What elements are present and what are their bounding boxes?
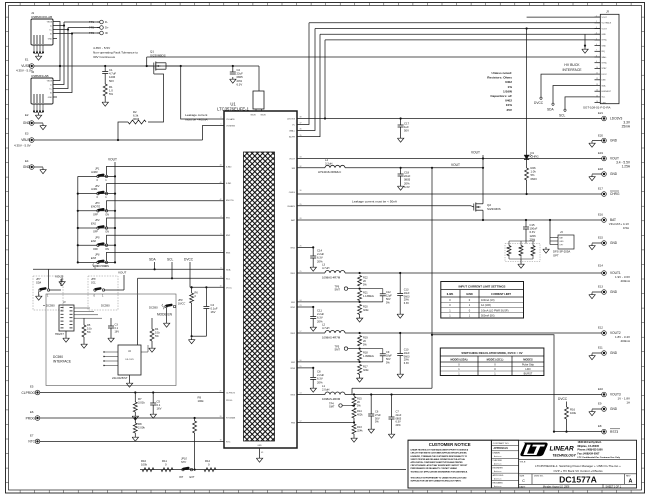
svg-text:0603: 0603 — [404, 294, 410, 298]
svg-text:10: 10 — [596, 67, 598, 69]
svg-text:16V: 16V — [157, 407, 162, 411]
svg-text:5.1k: 5.1k — [87, 326, 93, 330]
svg-text:C9: C9 — [386, 350, 390, 354]
node SCL below J5 — [565, 97, 595, 109]
svg-text:E17: E17 — [598, 187, 603, 191]
svg-text:0603: 0603 — [133, 117, 140, 121]
svg-text:24LC025/ST: 24LC025/ST — [112, 376, 128, 380]
svg-text:GND: GND — [48, 38, 53, 40]
svg-text:4.7uH: 4.7uH — [322, 326, 329, 330]
svg-text:C6: C6 — [375, 410, 379, 414]
ground at J4 — [545, 247, 547, 249]
svg-text:1.13MEG: 1.13MEG — [363, 294, 374, 298]
svg-text:15: 15 — [596, 95, 598, 97]
capacitor C14 — [312, 247, 314, 256]
svg-text:E9: E9 — [598, 402, 602, 406]
resistor R11 — [161, 468, 173, 472]
svg-text:0.5mA (LO PWR SUSP): 0.5mA (LO PWR SUSP) — [481, 308, 509, 312]
ground below R8 — [134, 433, 136, 435]
svg-text:PROG: PROG — [226, 400, 233, 402]
svg-text:NTC: NTC — [28, 440, 35, 444]
svg-text:100k: 100k — [570, 411, 577, 415]
resistor R7 — [134, 393, 136, 403]
svg-text:WALL: WALL — [289, 130, 296, 133]
svg-text:5%: 5% — [507, 255, 510, 257]
svg-text:CNTL: CNTL — [602, 102, 607, 104]
svg-text:SYNC: SYNC — [602, 63, 608, 65]
svg-text:Capacitors: uF: Capacitors: uF — [490, 94, 512, 98]
svg-text:JP5: JP5 — [95, 235, 100, 239]
svg-text:Fax: (408)434-0507: Fax: (408)434-0507 — [578, 452, 600, 455]
svg-text:OPT: OPT — [553, 253, 559, 257]
ground at E11 — [592, 352, 602, 354]
svg-text:E6: E6 — [30, 410, 34, 414]
wire NTC bottom rail — [140, 469, 406, 471]
svg-text:324k: 324k — [357, 428, 363, 432]
svg-text:DVCC: DVCC — [184, 258, 194, 262]
svg-text:C10: C10 — [404, 348, 409, 352]
wire Q2 to BAT rail — [482, 214, 484, 220]
resistor R8 — [134, 418, 136, 423]
svg-text:THIS CIRCUIT IS PROPRIETARY TO: THIS CIRCUIT IS PROPRIETARY TO LINEAR TE… — [411, 477, 468, 480]
resistor R14 — [352, 408, 356, 418]
svg-text:JP3: JP3 — [95, 201, 100, 205]
svg-text:RST3: RST3 — [610, 430, 618, 434]
wire riser to LDO3V3 rail — [324, 40, 326, 119]
svg-text:0.5A: 0.5A — [623, 226, 629, 230]
svg-text:DVCC: DVCC — [602, 74, 608, 76]
svg-text:GND: GND — [257, 445, 262, 447]
svg-text:VC/TRACK: VC/TRACK — [602, 22, 612, 25]
table input current limit settings — [441, 282, 524, 319]
svg-text:R17: R17 — [363, 364, 368, 368]
svg-text:JP6: JP6 — [95, 253, 100, 257]
ground below R4 — [151, 341, 153, 346]
svg-text:LINEAR: LINEAR — [550, 446, 575, 453]
svg-text:ACPR: ACPR — [289, 136, 295, 139]
svg-text:0402: 0402 — [505, 80, 512, 84]
logo cell — [519, 459, 637, 461]
ground below C5 — [152, 412, 154, 414]
connector J1 USBMICRO-AB — [31, 19, 53, 45]
svg-text:SHEET 1 OF 1: SHEET 1 OF 1 — [606, 486, 622, 488]
capacitor C7 — [391, 395, 393, 418]
svg-text:JP9: JP9 — [178, 298, 183, 302]
svg-text:R13: R13 — [357, 425, 362, 429]
svg-text:MODE1 (SCL): MODE1 (SCL) — [487, 358, 504, 362]
svg-text:DWG NO.: DWG NO. — [534, 476, 544, 478]
svg-text:0603: 0603 — [531, 177, 538, 181]
svg-text:CHRG: CHRG — [610, 192, 620, 196]
svg-text:VBUS: VBUS — [47, 80, 53, 82]
capacitor C4 — [205, 286, 207, 288]
svg-text:100mA (1X): 100mA (1X) — [481, 298, 495, 302]
svg-text:APPROVED: APPROVED — [493, 474, 504, 477]
svg-text:50V: 50V — [109, 79, 114, 83]
wire ID riser — [57, 34, 72, 93]
ground below C8 — [312, 386, 314, 388]
svg-text:0805: 0805 — [396, 416, 402, 420]
wire VOUT to J5 pin 3 — [315, 28, 600, 30]
svg-text:10uF: 10uF — [404, 291, 410, 295]
svg-text:E13: E13 — [598, 285, 603, 289]
svg-text:1.09MEG: 1.09MEG — [363, 354, 374, 358]
wire VIN1 row with C14 — [297, 246, 313, 248]
svg-text:R19: R19 — [363, 336, 368, 340]
svg-text:22uF: 22uF — [396, 413, 402, 417]
ground below C7 — [391, 432, 393, 434]
svg-text:24LC025: 24LC025 — [125, 359, 134, 361]
ground at E4 — [34, 166, 43, 168]
ground below C14 — [312, 265, 314, 267]
svg-text:EN1: EN1 — [91, 222, 97, 226]
wire D+ riser — [57, 30, 68, 89]
svg-text:TP6: TP6 — [335, 284, 340, 288]
svg-text:GND: GND — [610, 351, 618, 355]
svg-text:4.35V - 5.0V: 4.35V - 5.0V — [16, 69, 33, 73]
svg-text:16V: 16V — [115, 329, 120, 333]
svg-text:IRQ: IRQ — [602, 51, 606, 53]
svg-text:6.3V: 6.3V — [396, 420, 402, 424]
ground below C10 — [399, 372, 401, 374]
capacitor C6 — [370, 395, 372, 415]
svg-text:GND: GND — [610, 172, 618, 176]
svg-text:A: A — [629, 478, 633, 484]
svg-text:DC590: DC590 — [149, 306, 158, 310]
svg-text:DVCC: DVCC — [178, 301, 185, 305]
svg-text:324k: 324k — [363, 368, 369, 372]
svg-text:3.01k: 3.01k — [138, 401, 145, 405]
IC U2 24LC025 EEPROM — [118, 345, 141, 375]
svg-text:CHRG: CHRG — [289, 192, 296, 194]
wire output rail to E14 — [345, 272, 602, 274]
svg-text:OFF: OFF — [93, 247, 99, 251]
svg-text:1.25A: 1.25A — [622, 165, 631, 169]
svg-text:20%: 20% — [396, 423, 402, 427]
wire SW3 row — [297, 394, 325, 396]
svg-text:400mA: 400mA — [620, 339, 630, 343]
svg-text:3: 3 — [596, 27, 597, 29]
svg-text:REV: REV — [626, 476, 631, 478]
svg-text:50V: 50V — [404, 129, 409, 133]
svg-text:27uF: 27uF — [375, 413, 381, 417]
svg-text:VOUT: VOUT — [289, 159, 296, 161]
ground below R7 — [134, 412, 136, 414]
svg-text:6.3V: 6.3V — [237, 82, 243, 86]
svg-text:E7: E7 — [30, 434, 34, 438]
svg-text:SI2333DS: SI2333DS — [487, 207, 501, 211]
svg-text:TITLE:: TITLE: — [520, 461, 527, 463]
svg-text:4.35V - 5.0V: 4.35V - 5.0V — [14, 144, 31, 148]
svg-text:400mA: 400mA — [620, 279, 630, 283]
svg-text:SUPPLIED FOR USE WITH LINEAR T: SUPPLIED FOR USE WITH LINEAR TECHNOLOGY … — [411, 480, 462, 483]
svg-text:13: 13 — [596, 84, 598, 86]
svg-text:D+: D+ — [105, 26, 109, 30]
connector J2 USBMINI-AB — [31, 78, 53, 104]
svg-text:1%: 1% — [508, 85, 513, 89]
wires HD2X7 to right — [74, 307, 90, 309]
resistor R9 — [194, 418, 196, 421]
svg-text:5.1k: 5.1k — [155, 330, 161, 334]
customer notice box — [408, 440, 491, 488]
wire U2 right pin — [141, 351, 148, 353]
svg-text:ON: ON — [105, 230, 109, 234]
svg-text:2.0uH: 2.0uH — [322, 388, 329, 392]
capacitor C11 on VIN2 — [297, 306, 313, 308]
svg-text:JP2: JP2 — [95, 184, 100, 188]
ground below R13 — [353, 434, 355, 436]
U1 bottom ground pin and ground — [259, 448, 261, 456]
svg-text:LDO3V3: LDO3V3 — [610, 117, 623, 121]
svg-text:0603: 0603 — [404, 354, 410, 358]
svg-text:SIZE: SIZE — [520, 476, 525, 478]
svg-text:VIN1: VIN1 — [290, 248, 296, 250]
svg-text:LINEAR TECHNOLOGY HAS MADE A B: LINEAR TECHNOLOGY HAS MADE A BEST EFFORT… — [411, 449, 469, 452]
svg-text:R22: R22 — [363, 276, 368, 280]
svg-text:GND: GND — [610, 407, 618, 411]
svg-text:R14: R14 — [357, 409, 362, 413]
svg-text:TP5: TP5 — [335, 344, 340, 348]
svg-text:OVGATE: OVGATE — [226, 118, 235, 121]
svg-text:NTCBIAS: NTCBIAS — [226, 417, 236, 420]
wire BAT rail to E16 — [297, 219, 602, 221]
resistor R20 — [358, 304, 362, 314]
svg-text:ILIM1: ILIM1 — [447, 292, 454, 296]
svg-text:50V: 50V — [386, 357, 391, 361]
ground below C3 — [110, 336, 112, 338]
ground below HD2X7 — [65, 331, 67, 336]
svg-text:E2: E2 — [25, 113, 29, 117]
svg-text:NTC: NTC — [181, 460, 186, 464]
svg-text:DC1577A: DC1577A — [559, 474, 597, 484]
svg-text:X: X — [494, 362, 496, 366]
table switching regulator mode — [440, 348, 544, 376]
wire WALL to J5 pin 8 — [147, 56, 601, 58]
svg-text:E21: E21 — [598, 111, 603, 115]
connector J5 HV buck interface — [600, 14, 619, 103]
svg-text:Leakage current: Leakage current — [185, 113, 207, 117]
svg-text:C13: C13 — [404, 288, 409, 292]
wire sense stub left — [352, 387, 432, 389]
svg-text:ILIM1: ILIM1 — [226, 183, 232, 185]
svg-text:SWITCHING REGULATOR MODE, DVCC: SWITCHING REGULATOR MODE, DVCC = 0V — [461, 351, 522, 355]
svg-text:MODE EN: MODE EN — [157, 313, 173, 317]
connector HD2X7 header — [59, 305, 74, 331]
wire Q1 gate — [153, 66, 155, 74]
wire J1/J2 VBUS riser — [57, 22, 60, 81]
capacitor C3 — [110, 318, 112, 326]
Linear Technology logo — [520, 443, 547, 457]
svg-text:1630 McCarthy Blvd.: 1630 McCarthy Blvd. — [578, 441, 602, 444]
svg-text:1A: 1A — [626, 401, 630, 405]
wire riser ACPR — [297, 34, 320, 136]
svg-text:E1: E1 — [25, 58, 29, 62]
resistor R1 — [104, 74, 106, 85]
svg-text:VOUT: VOUT — [602, 17, 608, 19]
svg-text:CURRENT LIMIT: CURRENT LIMIT — [491, 292, 511, 296]
svg-text:1A (10X): 1A (10X) — [481, 303, 491, 307]
wire GND to J5 pin 4 — [320, 33, 600, 35]
svg-text:APPROVALS: APPROVALS — [494, 447, 509, 450]
svg-text:SDA: SDA — [149, 258, 156, 262]
svg-text:50V: 50V — [386, 297, 391, 301]
svg-text:JP4: JP4 — [95, 218, 100, 222]
resistor R19 — [358, 336, 362, 347]
svg-text:6.3V: 6.3V — [404, 185, 410, 189]
svg-text:100k: 100k — [198, 399, 205, 403]
svg-text:4.7uH: 4.7uH — [322, 266, 329, 270]
svg-text:2.00k: 2.00k — [138, 426, 145, 430]
svg-text:E14: E14 — [598, 264, 603, 268]
svg-text:Leakage current must be < 50nA: Leakage current must be < 50nA — [352, 200, 398, 204]
svg-text:9: 9 — [596, 61, 597, 63]
svg-text:ID: ID — [105, 31, 108, 35]
resistor R2 — [128, 120, 146, 124]
ground below C18 — [400, 184, 402, 186]
svg-text:5%: 5% — [519, 255, 522, 257]
svg-text:E20: E20 — [598, 134, 603, 138]
svg-text:R18: R18 — [363, 350, 368, 354]
svg-text:SCL: SCL — [602, 97, 606, 99]
resistor R12 — [204, 468, 216, 472]
resistor R17 — [358, 364, 362, 374]
svg-text:VC: VC — [292, 125, 295, 127]
svg-text:SMT: SMT — [329, 405, 335, 409]
svg-text:J5: J5 — [606, 10, 609, 14]
svg-text:10uF: 10uF — [404, 351, 410, 355]
svg-text:C7: C7 — [396, 410, 400, 414]
ground below U2 — [129, 375, 131, 381]
svg-text:WALL: WALL — [602, 56, 607, 59]
node SDA below J5 — [553, 86, 595, 104]
wire OVSENS riser — [203, 126, 225, 141]
resistor R18 — [358, 351, 362, 361]
wire VOUT to J5 pin 1 — [527, 16, 601, 18]
svg-text:1098AS-2R0M: 1098AS-2R0M — [322, 397, 341, 401]
ground at E13 — [592, 291, 602, 293]
svg-text:D-: D- — [50, 84, 52, 86]
svg-text:VERIFY PROPER AND RELIABLE OPE: VERIFY PROPER AND RELIABLE OPERATION IN … — [411, 458, 466, 461]
svg-text:DC590: DC590 — [101, 304, 110, 308]
svg-text:VUSB: VUSB — [21, 64, 30, 68]
svg-text:ON: ON — [105, 247, 109, 251]
svg-text:324k: 324k — [363, 308, 369, 312]
svg-text:INTERFACE: INTERFACE — [53, 360, 71, 364]
wire CLPROG — [40, 392, 224, 394]
svg-text:R6: R6 — [195, 291, 199, 295]
ground below R17 — [359, 374, 361, 376]
svg-text:8: 8 — [596, 55, 597, 57]
svg-text:RELEASED: RELEASED — [493, 481, 504, 484]
svg-text:E11: E11 — [598, 346, 603, 350]
capacitor C10 — [399, 333, 401, 354]
svg-text:DRAWN: DRAWN — [493, 452, 501, 455]
capacitor C18 — [400, 168, 402, 174]
svg-text:Pulse Skip: Pulse Skip — [522, 362, 535, 366]
svg-text:LDO: LDO — [525, 367, 530, 371]
capacitor C15 — [525, 220, 527, 227]
svg-text:14: 14 — [596, 90, 598, 92]
ground at E20 — [592, 140, 602, 142]
ground below J1 — [34, 52, 43, 54]
svg-text:VOUT: VOUT — [471, 151, 480, 155]
svg-text:SGT-108-01-F-D-RA: SGT-108-01-F-D-RA — [583, 106, 611, 110]
svg-text:HV BUCK: HV BUCK — [564, 63, 580, 67]
svg-text:USBMINI-AB: USBMINI-AB — [31, 74, 49, 78]
ground at E2 — [34, 122, 43, 124]
svg-text:EN2: EN2 — [91, 239, 97, 243]
svg-text:HVEN/EXT: HVEN/EXT — [602, 91, 612, 93]
svg-text:NTC: NTC — [226, 442, 231, 444]
svg-text:GND: GND — [610, 139, 618, 143]
svg-text:SYNC: SYNC — [602, 40, 608, 42]
svg-text:DC590: DC590 — [97, 264, 107, 268]
wire SW row L3 — [297, 272, 325, 274]
svg-text:LTC3576EUFE-1: LTC3576EUFE-1 — [217, 106, 249, 111]
svg-text:16V: 16V — [211, 310, 216, 314]
svg-text:VBUS: VBUS — [47, 21, 53, 23]
svg-text:MODE0 (SDA): MODE0 (SDA) — [451, 358, 468, 362]
svg-text:6.3V: 6.3V — [404, 361, 410, 365]
wire VBUS rail — [34, 65, 259, 67]
wire JP1 row — [78, 175, 97, 177]
wire JP2 row — [78, 193, 97, 195]
svg-text:18pF: 18pF — [386, 354, 392, 358]
svg-text:25mA: 25mA — [622, 125, 631, 129]
svg-text:3.3uH: 3.3uH — [325, 161, 332, 165]
svg-text:D-: D- — [50, 25, 52, 27]
svg-text:VOUT: VOUT — [108, 158, 117, 162]
svg-text:E18: E18 — [598, 167, 603, 171]
wire riser VC — [297, 23, 309, 125]
wire FB row — [297, 361, 383, 363]
svg-text:DVCC: DVCC — [534, 101, 544, 105]
svg-text:DC590: DC590 — [46, 304, 55, 308]
wire mid junction row — [348, 288, 383, 290]
svg-text:IDGATE: IDGATE — [287, 205, 295, 208]
svg-text:ILIM1: ILIM1 — [91, 187, 98, 191]
svg-text:Resistors: Ohms: Resistors: Ohms — [487, 76, 512, 80]
wire SCL to U2 — [137, 278, 139, 345]
resistor R4 — [151, 318, 153, 329]
svg-text:SCL: SCL — [91, 281, 97, 285]
svg-text:VBUS: VBUS — [21, 138, 30, 142]
svg-text:10%: 10% — [506, 103, 512, 107]
svg-text:OFF: OFF — [93, 212, 99, 216]
capacitor C17 — [400, 119, 402, 126]
svg-text:500mA (5X): 500mA (5X) — [481, 314, 495, 318]
svg-text:GND: GND — [48, 97, 53, 99]
svg-text:INT: INT — [179, 475, 184, 479]
svg-text:STBY: STBY — [602, 68, 608, 70]
svg-text:PROG: PROG — [26, 416, 36, 420]
svg-text:VIN3: VIN3 — [290, 368, 296, 370]
svg-text:30V Continuous: 30V Continuous — [93, 55, 115, 59]
capacitor C9 — [382, 349, 384, 354]
ground below J2 — [34, 111, 43, 113]
wire BAT to J4 — [549, 220, 551, 245]
svg-text:OVSENS: OVSENS — [226, 126, 235, 128]
ground below C13 — [399, 312, 401, 314]
capacitor C12 — [382, 289, 384, 294]
wire L4 output — [345, 167, 483, 169]
svg-text:HD2X7: HD2X7 — [55, 332, 64, 336]
svg-text:GND: GND — [560, 241, 565, 243]
svg-text:Monday, August 10, 2009: Monday, August 10, 2009 — [543, 485, 570, 488]
svg-text:SDA: SDA — [547, 108, 554, 112]
svg-text:E19: E19 — [598, 151, 603, 155]
wire CHRG rail to E17 — [297, 193, 602, 195]
